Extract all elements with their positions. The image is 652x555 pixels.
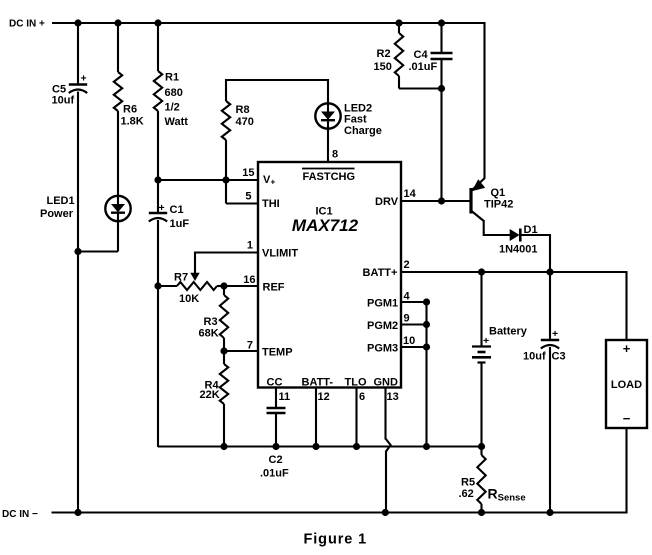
wire battery bottom lead — [480, 363, 482, 448]
svg-text:−: − — [623, 411, 631, 426]
svg-text:.01uF: .01uF — [409, 61, 438, 73]
node V+ / R1 / C1 — [154, 176, 161, 183]
svg-text:4: 4 — [404, 291, 411, 303]
wire R6 to LED1 — [117, 111, 119, 196]
node V+ / R8 — [222, 176, 229, 183]
svg-text:1N4001: 1N4001 — [499, 244, 538, 256]
wire C5 top lead — [77, 22, 79, 85]
wire R2 bottom lead — [398, 76, 400, 89]
svg-text:GND: GND — [374, 377, 399, 389]
svg-text:FASTCHG: FASTCHG — [303, 171, 356, 183]
svg-text:+: + — [623, 341, 631, 356]
wire Q1 collector down — [483, 220, 485, 236]
battery B1 — [472, 345, 491, 347]
R7 wiper arrow — [190, 273, 199, 281]
wire C2 bottom lead — [275, 413, 277, 447]
wire BATT- pin 12 lead — [315, 387, 317, 447]
resistor R2 — [395, 33, 403, 76]
transistor Q1 emitter arrow — [472, 179, 485, 191]
svg-text:+: + — [159, 202, 165, 214]
wire VLIMIT pin 1 — [195, 251, 258, 253]
node PGM3 — [423, 343, 430, 350]
wire PGM2 pin 9 — [401, 323, 427, 325]
svg-text:PGM1: PGM1 — [367, 298, 398, 310]
svg-text:10uf: 10uf — [523, 351, 546, 363]
svg-text:13: 13 — [387, 391, 399, 403]
svg-text:15: 15 — [242, 167, 254, 179]
svg-text:DC IN −: DC IN − — [2, 509, 38, 520]
resistor R4 — [220, 364, 228, 404]
wire C3 bottom lead — [549, 347, 551, 513]
svg-text:C4: C4 — [414, 49, 429, 61]
svg-text:THI: THI — [262, 198, 280, 210]
wire CC pin 11 lead — [275, 387, 277, 408]
svg-text:C3: C3 — [552, 351, 566, 363]
svg-text:10: 10 — [403, 335, 415, 347]
wire LED1 bottom lead — [117, 221, 119, 252]
svg-text:68K: 68K — [199, 328, 219, 340]
wire PGM tie line to bus — [425, 302, 427, 447]
svg-text:1.8K: 1.8K — [121, 116, 144, 128]
capacitor C3 — [541, 339, 559, 341]
wire C4 bottom to DRV — [440, 59, 442, 201]
svg-text:7: 7 — [247, 340, 253, 352]
op-amp U IC1 MAX712 body — [258, 162, 401, 388]
svg-text:C1: C1 — [170, 204, 184, 216]
svg-text:R7: R7 — [174, 272, 188, 284]
svg-text:Power: Power — [40, 208, 74, 220]
svg-text:14: 14 — [404, 188, 417, 200]
svg-text:TIP42: TIP42 — [484, 199, 513, 211]
svg-text:9: 9 — [404, 313, 410, 325]
node BATT+ / D1 / C3 — [546, 268, 553, 275]
FASTCHG overline — [302, 168, 355, 170]
wire V+ pin 15 — [158, 179, 258, 181]
wire R4 top lead — [223, 351, 225, 364]
svg-text:Fast: Fast — [344, 114, 367, 126]
svg-text:6: 6 — [359, 391, 365, 403]
wire R3 bottom lead — [223, 338, 225, 351]
svg-text:Battery: Battery — [489, 326, 528, 338]
wire C1 bottom to bus — [157, 220, 159, 447]
node R2 / C4 — [438, 85, 445, 92]
potentiometer R7 — [177, 282, 217, 290]
svg-text:+: + — [81, 73, 87, 85]
wire GND hop over bus — [386, 439, 391, 452]
svg-text:150: 150 — [374, 61, 392, 73]
svg-text:REF: REF — [263, 282, 285, 294]
svg-text:1uF: 1uF — [170, 218, 190, 230]
node DC IN+ / C4 — [438, 19, 445, 26]
LED LED2 — [315, 103, 340, 128]
svg-text:V+: V+ — [263, 174, 275, 187]
wire common bus — [158, 445, 482, 447]
wire GND pin 13 lead — [384, 387, 386, 440]
transistor Q1 collector diagonal — [472, 211, 484, 221]
svg-text:22K: 22K — [200, 389, 220, 401]
svg-text:1: 1 — [247, 240, 253, 252]
wire R1 top lead — [157, 22, 159, 71]
transistor Q1 base bar — [469, 188, 472, 214]
svg-text:R5: R5 — [461, 477, 475, 489]
wire R2 to C4 node — [399, 87, 442, 89]
node LED1 return / C5 — [74, 248, 81, 255]
node DC IN- / C3 — [546, 509, 553, 516]
wire PGM3 pin 10 — [401, 346, 427, 348]
svg-text:BATT+: BATT+ — [363, 267, 398, 279]
wire GND to bottom rail — [385, 451, 387, 514]
node PGM2 — [423, 321, 430, 328]
wire PGM1 pin 4 — [401, 301, 427, 303]
resistor R3 — [220, 295, 228, 338]
node DC IN- / C5 — [74, 509, 81, 516]
capacitor C5 — [69, 83, 87, 85]
svg-text:R2: R2 — [377, 48, 391, 60]
svg-text:.01uF: .01uF — [260, 468, 289, 480]
wire BATT+ rail — [401, 271, 628, 273]
capacitor C1 — [149, 212, 167, 214]
svg-text:Figure 1: Figure 1 — [304, 532, 368, 548]
svg-text:PGM2: PGM2 — [367, 320, 398, 332]
node R7 / C1 line — [154, 282, 161, 289]
wire C4 top lead — [440, 22, 442, 53]
svg-text:R6: R6 — [123, 104, 137, 116]
resistor R8 — [222, 101, 230, 140]
svg-text:16: 16 — [243, 274, 255, 286]
svg-text:MAX712: MAX712 — [292, 216, 359, 235]
svg-text:11: 11 — [279, 391, 291, 403]
svg-text:.62: .62 — [459, 488, 474, 500]
node DC IN- / R5 — [478, 509, 485, 516]
svg-text:TEMP: TEMP — [262, 347, 293, 359]
wire R2 top lead — [398, 22, 400, 33]
wire TLO pin 6 lead — [355, 387, 357, 447]
wire R3 top lead — [223, 286, 225, 295]
wire R8 bottom lead — [225, 140, 227, 180]
wire TEMP pin 7 — [224, 350, 258, 352]
svg-text:CC: CC — [267, 377, 283, 389]
node TEMP / R3 / R4 — [220, 347, 227, 354]
svg-text:12: 12 — [318, 391, 330, 403]
wire D1 to corner — [520, 234, 551, 236]
wire C5 bottom lead — [77, 92, 79, 514]
svg-text:TLO: TLO — [345, 377, 367, 389]
node BATT+ / battery — [478, 268, 485, 275]
svg-text:2: 2 — [404, 259, 410, 271]
node DC IN+ / R1 — [154, 19, 161, 26]
capacitor C2 — [267, 407, 286, 409]
svg-text:C2: C2 — [269, 454, 283, 466]
node bus / PGM — [423, 443, 430, 450]
wire C1 top lead — [157, 180, 159, 213]
wire REF pin 16 — [224, 285, 258, 287]
diode D1 — [510, 229, 520, 241]
node bus / R4 — [220, 443, 227, 450]
wire R4 bottom lead — [223, 404, 225, 447]
wire R5 top lead — [480, 447, 482, 456]
node DC IN+ / C5 — [74, 19, 81, 26]
resistor R1 — [154, 71, 162, 111]
wire LOAD bottom lead — [625, 428, 627, 513]
resistor R6 — [114, 72, 122, 111]
svg-text:DRV: DRV — [375, 196, 399, 208]
node DC IN+ / R2 — [395, 19, 402, 26]
wire R7 left lead — [158, 285, 177, 287]
wire DC IN- bottom rail — [52, 511, 628, 513]
wire R5 bottom lead — [480, 504, 482, 513]
LED LED1 — [105, 196, 130, 221]
svg-text:LOAD: LOAD — [611, 379, 642, 391]
wire R8 top lead — [225, 79, 227, 101]
svg-text:Charge: Charge — [344, 125, 382, 137]
svg-text:8: 8 — [332, 149, 338, 161]
node bus / battery / R5 — [478, 443, 485, 450]
wire THI elbow vertical — [225, 180, 227, 204]
svg-text:DC IN +: DC IN + — [9, 19, 45, 30]
wire LED1 to C5 line — [77, 250, 118, 252]
svg-text:Q1: Q1 — [491, 187, 506, 199]
svg-text:R3: R3 — [204, 316, 218, 328]
node bus / TLO — [353, 443, 360, 450]
svg-text:10uf: 10uf — [52, 95, 75, 107]
capacitor C4 — [431, 52, 453, 54]
svg-text:Watt: Watt — [165, 116, 189, 128]
svg-text:BATT-: BATT- — [302, 377, 334, 389]
node DC IN+ / R6 — [114, 19, 121, 26]
svg-text:1/2: 1/2 — [165, 102, 180, 114]
wire D1 down to BATT+ rail — [549, 235, 551, 272]
wire battery top lead — [480, 272, 482, 347]
wire DC IN+ top rail — [52, 22, 486, 24]
svg-text:680: 680 — [165, 87, 183, 99]
wire LED2 to pin 8 — [327, 129, 329, 164]
wire BATT+ to LOAD top — [625, 272, 627, 340]
svg-text:+: + — [552, 328, 558, 340]
wire R7 right lead — [217, 285, 224, 287]
wire THI pin 5 — [226, 202, 258, 204]
node REF / R7 / R3 — [220, 282, 227, 289]
svg-text:+: + — [483, 335, 489, 347]
resistor R5 — [477, 455, 485, 504]
svg-text:10K: 10K — [179, 293, 199, 305]
wire C3 top lead — [549, 272, 551, 340]
transistor Q1 emitter diagonal — [472, 178, 485, 191]
svg-text:R8: R8 — [236, 104, 250, 116]
node bus / C2 — [272, 443, 279, 450]
wire collector to D1 — [484, 234, 510, 236]
svg-text:PGM3: PGM3 — [367, 343, 398, 355]
wire VLIMIT down to R7 wiper — [194, 252, 196, 275]
svg-text:R1: R1 — [165, 72, 179, 84]
LOAD box — [606, 340, 647, 428]
node DC IN- / GND — [382, 509, 389, 516]
wire top-right drop to Q1 emitter — [483, 22, 485, 179]
svg-text:LED1: LED1 — [47, 195, 75, 207]
wire R8 to LED2 top — [226, 79, 328, 81]
wire R1 to V+ node — [157, 111, 159, 180]
svg-text:5: 5 — [245, 191, 251, 203]
wire DRV pin 14 — [401, 200, 470, 202]
svg-text:VLIMIT: VLIMIT — [262, 248, 298, 260]
svg-text:470: 470 — [236, 116, 254, 128]
node DRV / C4 — [438, 197, 445, 204]
node bus / BATT- — [312, 443, 319, 450]
wire R6 top lead — [117, 22, 119, 72]
node PGM1 — [423, 298, 430, 305]
wire LED2 top lead — [327, 79, 329, 104]
